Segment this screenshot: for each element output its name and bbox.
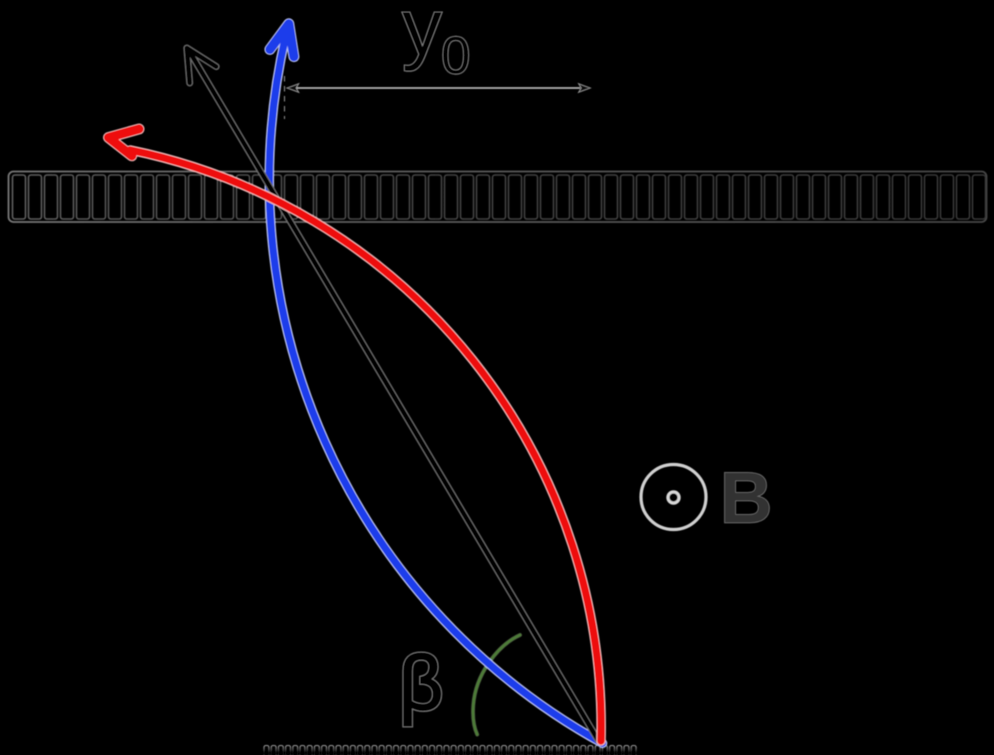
black shaft halo xyxy=(188,49,598,740)
blue trajectory (deflected particle) xyxy=(269,24,602,743)
top wall outer frame xyxy=(9,172,987,223)
B field circle ring xyxy=(641,465,706,530)
black straight arrow (undeflected path) xyxy=(187,48,598,740)
top wall hatch cells xyxy=(13,175,986,219)
black shaft core xyxy=(188,49,598,740)
svg-text:0: 0 xyxy=(441,27,470,86)
blue arrowhead halo xyxy=(270,24,294,57)
B field dot halo xyxy=(666,490,680,504)
svg-text:β: β xyxy=(399,641,443,727)
blue curve halo xyxy=(269,35,602,743)
y0 right arrowhead xyxy=(579,84,591,93)
label y0 xyxy=(402,0,470,86)
beta angle arc core xyxy=(473,635,520,735)
y0 dimension line xyxy=(293,87,580,89)
fade over bottom wall xyxy=(255,744,655,755)
red curve halo xyxy=(130,150,601,741)
B field dot core xyxy=(669,493,677,501)
y0 dimension dashed extension line xyxy=(284,76,286,119)
red trajectory (opposite charge) xyxy=(109,129,602,741)
black arrowhead xyxy=(187,48,216,83)
label beta xyxy=(399,641,443,727)
top wall (hatched screen) xyxy=(9,172,987,223)
red arrowhead xyxy=(109,129,140,156)
beta angle arc halo xyxy=(473,635,520,735)
B field symbol: circle with dot (field out of page) xyxy=(641,465,706,530)
bottom wall (slit plate, clipped at page edge) xyxy=(264,746,636,755)
red curve core xyxy=(130,150,601,741)
red arrowhead halo xyxy=(109,129,140,156)
y0 left arrowhead xyxy=(287,84,299,93)
svg-text:y: y xyxy=(402,0,442,72)
angle arc beta (green) xyxy=(473,635,520,735)
svg-text:B: B xyxy=(720,458,772,539)
blue curve core xyxy=(269,35,602,743)
blue arrowhead xyxy=(270,24,294,57)
black arrowhead halo xyxy=(187,48,216,83)
